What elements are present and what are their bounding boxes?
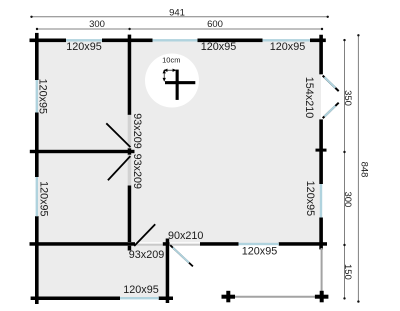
dimension line 941 xyxy=(32,17,359,302)
detail arrow horizontal xyxy=(163,69,176,81)
door opening fills xyxy=(128,115,200,246)
bottom main wall seg: door90 to window xyxy=(200,242,239,246)
right wall log tick at y150 xyxy=(316,149,327,152)
svg-text:93x209: 93x209 xyxy=(131,154,143,189)
bottom main wall seg: window to right corner xyxy=(279,242,327,246)
svg-text:120x95: 120x95 xyxy=(270,41,305,53)
window 120x95 right xyxy=(320,184,322,218)
left wall segment between windows xyxy=(35,113,39,178)
window 120x95 top 1 xyxy=(66,39,102,41)
interior horizontal wall xyxy=(30,150,135,153)
bottom main wall junction block at porch wall xyxy=(163,242,170,246)
opening 93x209 upper in vertical wall xyxy=(128,115,132,148)
svg-text:300: 300 xyxy=(342,191,353,207)
svg-text:150: 150 xyxy=(342,264,353,280)
bottom main wall seg: left wall to door93 opening xyxy=(30,242,136,246)
door leaf C (93x209 bottom wall) xyxy=(134,224,155,246)
top wall segment window2 to window3 xyxy=(198,39,263,43)
window 120x95 bottom left xyxy=(120,297,159,299)
door leaf F blue middle xyxy=(324,106,335,117)
opening 90x210 in bottom wall xyxy=(170,242,200,244)
left wall segment top xyxy=(35,33,39,80)
svg-text:300: 300 xyxy=(89,19,105,30)
detail cross horizontal log xyxy=(165,81,195,84)
dimension line right inner 350/300/150 xyxy=(344,40,346,298)
porch post left xyxy=(222,291,236,303)
bottom-left room bottom wall seg left xyxy=(31,297,120,301)
opening 93x209 lower in vertical wall xyxy=(128,155,132,186)
porch left wall (x167) xyxy=(166,239,170,304)
door leaf E blue middle xyxy=(324,77,335,88)
interior vertical wall top segment xyxy=(128,35,132,115)
door leaf D (90x210 entrance) black ends xyxy=(170,245,193,266)
left wall segment bottom xyxy=(35,216,39,304)
interior vertical wall junction segment xyxy=(128,148,132,155)
top wall segment window3 to right corner xyxy=(310,39,326,43)
door leaf A (upper 93x209) xyxy=(106,123,130,147)
top wall segment window1 to window2 xyxy=(102,39,153,43)
svg-text:10cm: 10cm xyxy=(162,56,180,65)
window 120x95 left 2 xyxy=(36,177,38,216)
dimension line 848 xyxy=(357,35,359,301)
window 120x95 top 2 xyxy=(153,39,198,41)
svg-text:941: 941 xyxy=(169,8,185,19)
window 120x95 top 3 xyxy=(263,39,311,41)
detail circle 10cm xyxy=(145,54,199,108)
svg-text:93x209: 93x209 xyxy=(131,113,143,148)
window 120x95 bottom right xyxy=(239,243,279,245)
svg-text:120x95: 120x95 xyxy=(37,79,49,114)
svg-text:848: 848 xyxy=(359,162,370,178)
svg-text:120x95: 120x95 xyxy=(201,41,236,53)
interior vertical wall bottom cross stub xyxy=(128,246,132,251)
windows (blue) xyxy=(36,39,323,299)
bottom-left room bottom wall seg right xyxy=(159,297,173,301)
top wall segment left corner to window1 xyxy=(30,39,67,43)
porch right edge line xyxy=(321,248,323,297)
detail arrow vertical xyxy=(163,71,165,80)
svg-text:154x210: 154x210 xyxy=(303,77,315,118)
svg-text:90x210: 90x210 xyxy=(168,230,203,242)
svg-text:120x95: 120x95 xyxy=(242,246,277,258)
dimension line 300/600 xyxy=(37,28,322,30)
door leaf F (154x210 bottom) black xyxy=(323,103,339,118)
interior vertical wall lower segment xyxy=(128,186,132,243)
right wall segment bottom xyxy=(319,218,323,250)
detail cross vertical log xyxy=(176,70,179,100)
porch bottom edge line xyxy=(228,296,322,298)
right wall segment middle xyxy=(319,119,323,184)
walls xyxy=(30,33,328,304)
right wall segment top xyxy=(319,35,323,75)
door leaf D blue middle xyxy=(173,248,189,263)
dimension ticks xyxy=(30,16,359,303)
svg-text:350: 350 xyxy=(342,90,353,106)
svg-text:600: 600 xyxy=(207,19,223,30)
porch post right xyxy=(315,291,329,303)
door leaf B (lower 93x209) xyxy=(108,156,130,180)
window 120x95 left 1 xyxy=(36,80,38,113)
floor area xyxy=(37,40,322,298)
svg-text:120x95: 120x95 xyxy=(304,181,316,216)
svg-text:93x209: 93x209 xyxy=(129,249,164,261)
opening 93x209 in bottom wall xyxy=(135,242,163,244)
svg-text:120x95: 120x95 xyxy=(66,41,101,53)
svg-text:120x95: 120x95 xyxy=(37,181,49,216)
door leaf E (154x210 top) black xyxy=(323,76,339,92)
svg-text:120x95: 120x95 xyxy=(123,284,158,296)
